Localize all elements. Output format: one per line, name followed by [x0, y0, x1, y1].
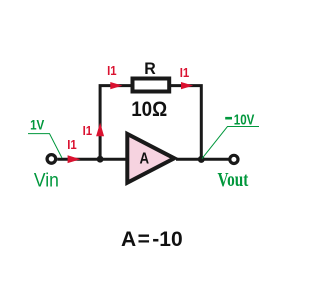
node input junction [97, 156, 104, 163]
svg-text:10V: 10V [234, 111, 255, 128]
current arrow I1 top-left [110, 82, 122, 89]
wire top-right segment + feedback right vertical [171, 86, 201, 160]
leader line 1V [28, 134, 62, 158]
terminal Vout (open circle) [230, 155, 238, 163]
wire feedback left vertical + top-left segment [100, 86, 131, 160]
terminal Vin (open circle) [47, 155, 56, 164]
svg-text:A = -10: A = -10 [121, 228, 183, 251]
current arrow I1 input [68, 155, 81, 163]
svg-text:R: R [144, 59, 156, 78]
svg-text:1V: 1V [30, 116, 45, 132]
svg-text:I1: I1 [67, 137, 77, 152]
svg-text:I1: I1 [180, 65, 190, 80]
wire output: amplifier apex to Vout terminal [176, 158, 229, 161]
current arrow I1 feedback up [96, 123, 104, 137]
leader line -10V [202, 127, 259, 159]
svg-text:I1: I1 [107, 63, 117, 78]
resistor R1 body [133, 79, 170, 92]
op-amp A triangle [127, 134, 174, 183]
wire input: Vin terminal to amplifier [57, 158, 127, 161]
node output junction [198, 156, 205, 163]
svg-text:Vout: Vout [218, 170, 249, 191]
label -10V [225, 117, 232, 120]
svg-text:A: A [140, 151, 150, 168]
current arrow I1 top-right [181, 82, 193, 89]
svg-text:10Ω: 10Ω [131, 98, 167, 121]
svg-text:Vin: Vin [34, 170, 59, 191]
svg-text:I1: I1 [83, 123, 93, 138]
